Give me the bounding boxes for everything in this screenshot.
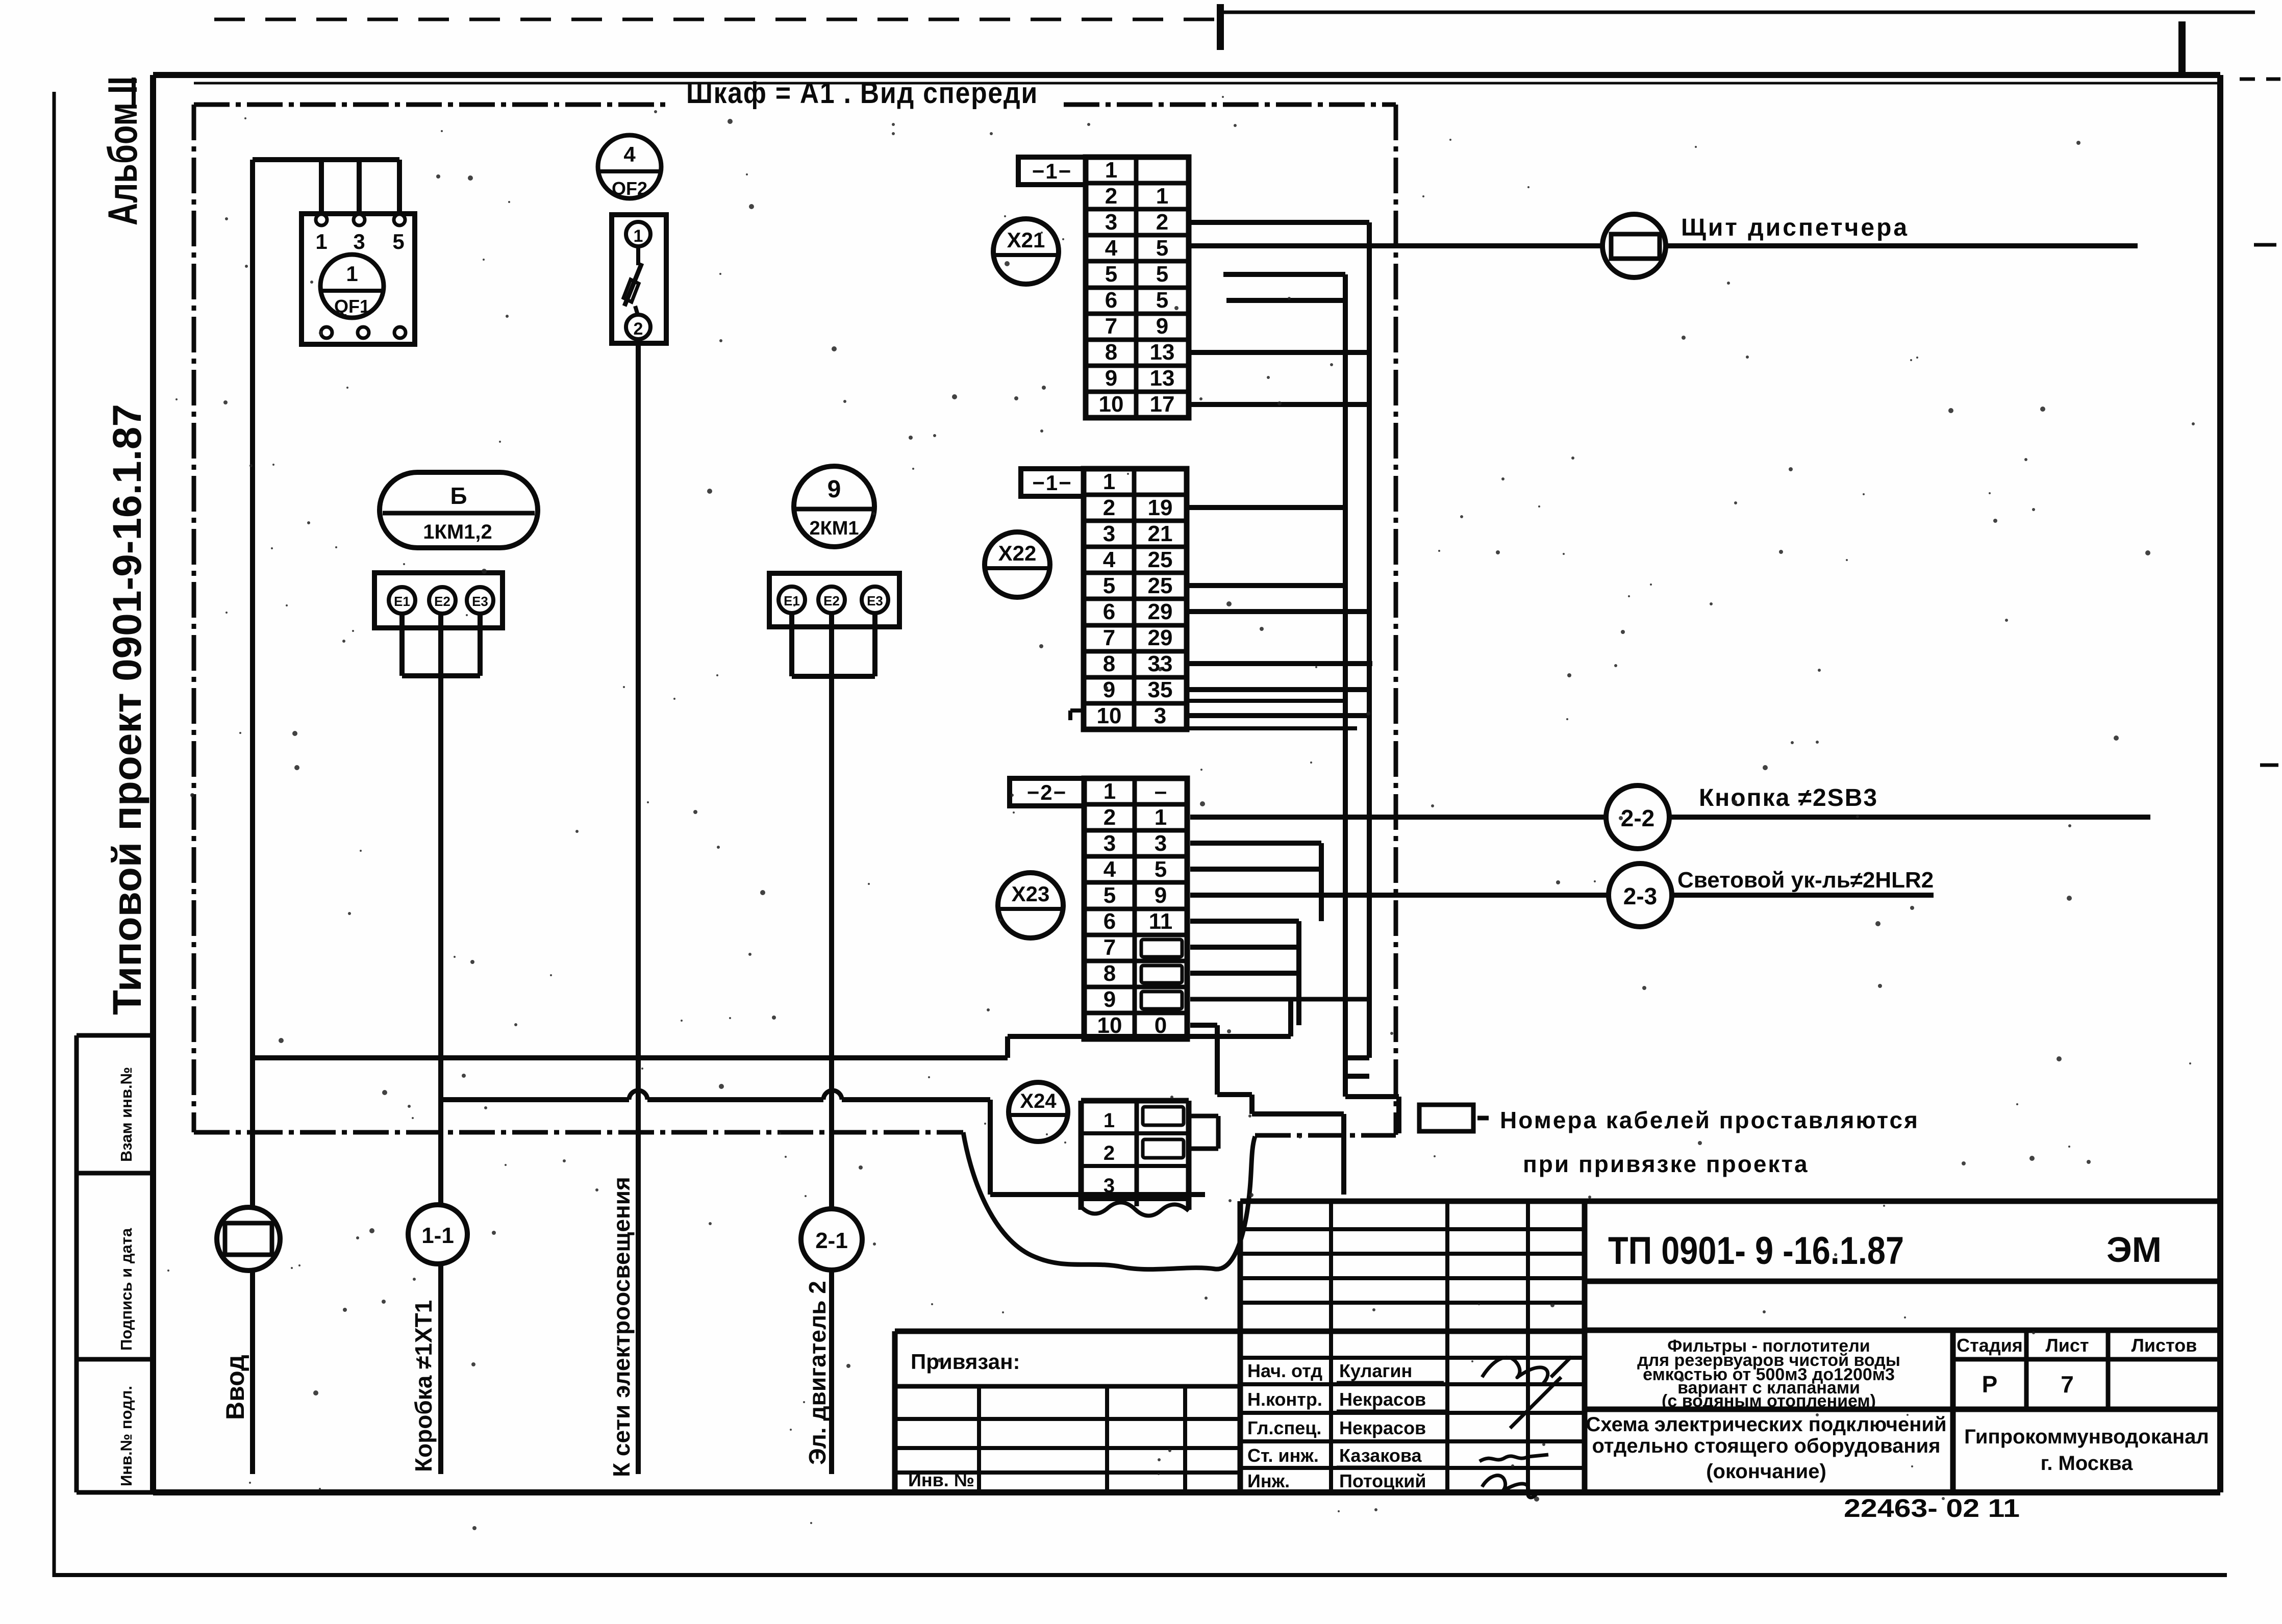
wire: X23 row3-4 jog [1319, 843, 1324, 921]
svg-text:2-1: 2-1 [815, 1228, 848, 1253]
wire: X21 row4 / dispatcher board line [1189, 243, 2138, 248]
svg-text:2-2: 2-2 [1621, 805, 1654, 831]
svg-text:25: 25 [1148, 573, 1173, 598]
svg-text:Е2: Е2 [823, 593, 840, 608]
svg-text:Е1: Е1 [394, 594, 410, 609]
wire: X23 row3 [1190, 841, 1321, 846]
wire: X21 row5 stub [1223, 272, 1345, 277]
wire: 1КМ1,2 terminals to Коробка 1ХТ1 [402, 614, 480, 1474]
svg-text:9: 9 [1104, 987, 1116, 1012]
svg-text:17: 17 [1150, 392, 1175, 417]
wire: feeder bus to QF1 and Ввод riser [253, 160, 399, 1474]
svg-text:Стадия: Стадия [1957, 1335, 2023, 1356]
svg-text:Е1: Е1 [784, 593, 800, 608]
svg-text:7: 7 [1105, 314, 1117, 339]
wire: X23 row2 / button 2SB3 line [1190, 815, 2150, 820]
connector circle X23 [998, 873, 1063, 938]
svg-text:QF1: QF1 [334, 296, 370, 317]
wire: X21 row3 to bus V2 [1189, 220, 1369, 225]
svg-text:9: 9 [1105, 366, 1117, 391]
svg-text:11: 11 [1149, 909, 1173, 934]
legend text [1500, 1107, 1919, 1177]
wire: X22 row9b [1187, 699, 1345, 703]
svg-text:5: 5 [1105, 262, 1117, 287]
wire: rung V1 to cabinet edge [1345, 1094, 1399, 1099]
svg-text:Типовой проект 0901-9-16.1.8: Типовой проект 0901-9-16.1.87 [104, 404, 149, 1015]
svg-text:X23: X23 [1012, 882, 1050, 906]
svg-text:ТП 0901- 9 -16.1.87: ТП 0901- 9 -16.1.87 [1608, 1229, 1904, 1273]
svg-text:13: 13 [1150, 366, 1175, 391]
svg-text:1: 1 [1104, 1109, 1115, 1132]
svg-text:35: 35 [1148, 677, 1173, 702]
svg-text:г. Москва: г. Москва [2041, 1452, 2133, 1475]
svg-text:–: – [1155, 779, 1167, 804]
svg-text:X22: X22 [998, 541, 1037, 565]
svg-text:Ст. инж.: Ст. инж. [1247, 1445, 1319, 1466]
svg-text:25: 25 [1148, 547, 1173, 572]
terminal strip X24 table [1081, 1101, 1189, 1216]
svg-text:Альбом II: Альбом II [100, 77, 146, 225]
svg-text:−1−: −1− [1032, 471, 1072, 495]
circuit breaker QF1 [302, 214, 415, 344]
wire: X23 row7 [1190, 945, 1299, 950]
wire: X23 row10 zigzag to X24 [1190, 1025, 1344, 1195]
svg-text:3: 3 [1154, 703, 1166, 728]
svg-text:4: 4 [1105, 236, 1118, 261]
svg-text:−2−: −2− [1027, 780, 1067, 804]
svg-text:1: 1 [1156, 184, 1168, 209]
svg-text:2: 2 [1156, 210, 1168, 235]
svg-text:1-1: 1-1 [421, 1223, 454, 1248]
svg-text:9: 9 [1156, 314, 1168, 339]
svg-text:Р: Р [1982, 1371, 1998, 1398]
cable circle: Ввод (feeder) [217, 1207, 280, 1271]
svg-text:−1−: −1− [1032, 159, 1072, 183]
wire: vertical bus V2 [1367, 222, 1372, 1058]
svg-text:Лист: Лист [2045, 1335, 2089, 1356]
svg-text:7: 7 [1104, 935, 1116, 960]
wire: X22 row9 [1187, 687, 1369, 692]
svg-text:5: 5 [1155, 857, 1167, 882]
svg-text:1: 1 [346, 262, 358, 286]
terminal strip X21 table [1086, 157, 1189, 418]
svg-text:1: 1 [315, 230, 327, 253]
svg-text:6: 6 [1103, 599, 1115, 624]
wire: X21 row10 [1189, 402, 1369, 407]
svg-text:5: 5 [1103, 573, 1115, 598]
svg-text:6: 6 [1104, 909, 1116, 934]
svg-text:8: 8 [1104, 961, 1116, 986]
svg-text:1: 1 [1155, 805, 1167, 830]
terminal strip X21 header &#8722;1&#8722; [1018, 157, 1086, 185]
svg-text:отдельно стоящего оборудования: отдельно стоящего оборудования [1592, 1435, 1940, 1457]
svg-text:Схема электрических подключени: Схема электрических подключений [1586, 1413, 1946, 1436]
svg-text:10: 10 [1099, 392, 1124, 417]
title block texts [908, 1229, 2209, 1523]
wire: vertical bus V1 [1343, 274, 1348, 1097]
svg-text:5: 5 [392, 230, 404, 253]
svg-text:33: 33 [1148, 651, 1173, 676]
svg-text:3: 3 [1105, 210, 1117, 235]
wire: X22 row10a [1187, 713, 1369, 718]
cable circle 2-3 [1609, 864, 1672, 927]
svg-text:3: 3 [353, 230, 365, 253]
terminal strip X22 table [1084, 469, 1187, 729]
svg-text:4: 4 [1103, 547, 1116, 572]
svg-text:1: 1 [1105, 158, 1117, 183]
wire: 2КМ1 terminals to motor 2 [792, 613, 875, 1474]
wire: X22 row2 [1187, 505, 1345, 510]
svg-text:Б: Б [450, 483, 467, 509]
legend: cable number symbol [1419, 1105, 1489, 1131]
svg-text:5: 5 [1156, 236, 1168, 261]
svg-text:ЭМ: ЭМ [2107, 1230, 2162, 1270]
svg-text:(с водяным отоплением): (с водяным отоплением) [1662, 1391, 1876, 1411]
svg-text:Щит диспетчера: Щит диспетчера [1681, 214, 1909, 241]
switch QF2 position circle 4 [598, 135, 661, 199]
svg-text:13: 13 [1150, 340, 1175, 365]
svg-text:Потоцкий: Потоцкий [1339, 1470, 1426, 1491]
svg-text:Некрасов: Некрасов [1339, 1417, 1426, 1438]
svg-text:Е2: Е2 [434, 594, 450, 609]
svg-text:5: 5 [1156, 262, 1168, 287]
svg-text:4: 4 [1104, 857, 1116, 882]
svg-text:Коробка ≠1ХТ1: Коробка ≠1ХТ1 [410, 1300, 437, 1472]
wire: X23 row5 / light indicator 2HLR2 line [1190, 893, 1934, 898]
svg-text:Инв. №: Инв. № [908, 1469, 974, 1490]
title block [895, 1201, 2220, 1492]
cabinet =A1 outline (chain line) [194, 105, 1396, 1270]
svg-text:Н.контр.: Н.контр. [1247, 1389, 1322, 1410]
contactor 1КМ1,2 position Б [380, 472, 538, 548]
svg-text:4: 4 [623, 142, 636, 166]
wire: X22 row10b [1187, 726, 1357, 730]
terminal box of 2КМ1 (Е1 Е2 Е3) [769, 573, 899, 627]
svg-text:21: 21 [1148, 521, 1173, 546]
svg-text:19: 19 [1148, 495, 1173, 520]
svg-text:Шкаф = А1 . Вид спереди: Шкаф = А1 . Вид спереди [686, 77, 1038, 110]
svg-text:8: 8 [1103, 651, 1115, 676]
svg-text:Кнопка ≠2SB3: Кнопка ≠2SB3 [1699, 784, 1878, 811]
svg-text:при привязке проекта: при привязке проекта [1523, 1151, 1809, 1177]
connector circle X22 [985, 532, 1050, 597]
cable circle 1-1 [408, 1205, 467, 1264]
svg-text:3: 3 [1155, 831, 1167, 856]
svg-text:Гипрокоммунводоканал: Гипрокоммунводоканал [1964, 1426, 2209, 1448]
svg-text:Эл. двигатель 2: Эл. двигатель 2 [804, 1281, 831, 1465]
switch QF2 contact box [612, 215, 666, 343]
wire: X21 row8 [1189, 350, 1369, 355]
svg-text:Некрасов: Некрасов [1339, 1389, 1426, 1410]
svg-text:7: 7 [2061, 1371, 2074, 1398]
svg-text:5: 5 [1104, 883, 1116, 908]
svg-text:22463- 02 11: 22463- 02 11 [1844, 1494, 2020, 1523]
svg-text:9: 9 [827, 476, 841, 503]
svg-text:Взам инв.№: Взам инв.№ [117, 1067, 135, 1162]
svg-text:Казакова: Казакова [1339, 1445, 1422, 1466]
svg-text:Е3: Е3 [472, 594, 488, 609]
svg-text:К сети электроосвещения: К сети электроосвещения [608, 1177, 635, 1477]
svg-text:10: 10 [1097, 703, 1122, 728]
svg-text:7: 7 [1103, 625, 1115, 650]
svg-text:9: 9 [1155, 883, 1167, 908]
signatures [1479, 1357, 1571, 1498]
svg-text:2: 2 [1104, 805, 1116, 830]
svg-text:2: 2 [1103, 495, 1115, 520]
terminal strip X22 header &#8722;1&#8722; [1021, 469, 1084, 496]
connector circle X24 [1009, 1082, 1068, 1141]
connector circle X21 [993, 219, 1059, 284]
svg-text:QF2: QF2 [612, 178, 647, 199]
terminal strip X23 header &#8722;2&#8722; [1010, 778, 1084, 806]
contactor 2КМ1 position 9 [794, 466, 874, 547]
svg-text:9: 9 [1103, 677, 1115, 702]
svg-text:3: 3 [1103, 521, 1115, 546]
terminal box of 1КМ1,2 (Е1 Е2 Е3) [374, 573, 503, 628]
wire: X22 row8 [1187, 661, 1372, 666]
svg-text:Е3: Е3 [867, 593, 883, 608]
svg-text:1: 1 [1103, 469, 1115, 494]
wire: X22 row5 [1187, 583, 1345, 588]
wire: X24 cable loops [1189, 1116, 1218, 1149]
svg-text:1: 1 [634, 226, 643, 246]
svg-text:Подпись и дата: Подпись и дата [117, 1228, 135, 1351]
svg-text:29: 29 [1148, 625, 1173, 650]
wire: X21 row6 stub [1226, 298, 1345, 303]
svg-text:Нач. отд: Нач. отд [1247, 1360, 1322, 1381]
wire: bottom bus A from Ввод riser [253, 999, 1291, 1058]
svg-text:Кулагин: Кулагин [1339, 1360, 1412, 1381]
svg-text:2: 2 [634, 319, 643, 339]
svg-text:Номера кабелей проставляют: Номера кабелей проставляются [1500, 1107, 1919, 1133]
cable circle 2-2 [1606, 785, 1669, 849]
wire: QF2 to lighting network [636, 343, 641, 1474]
svg-text:Световой ук-ль≠2HLR2: Световой ук-ль≠2HLR2 [1677, 868, 1934, 893]
wire: X23 row4 [1190, 867, 1321, 872]
svg-text:5: 5 [1156, 288, 1168, 313]
wire: X23 row6 [1190, 919, 1299, 924]
svg-text:Листов: Листов [2131, 1335, 2197, 1356]
wire: X23 staircase vertical [1296, 921, 1301, 1025]
svg-text:6: 6 [1105, 288, 1117, 313]
svg-text:1КМ1,2: 1КМ1,2 [423, 521, 492, 543]
terminal strip X23 table [1084, 778, 1187, 1039]
svg-text:Гл.спец.: Гл.спец. [1247, 1417, 1321, 1438]
wire: X23 row8 [1190, 971, 1299, 976]
svg-text:8: 8 [1105, 340, 1117, 365]
svg-text:29: 29 [1148, 599, 1173, 624]
svg-text:1: 1 [1104, 779, 1116, 804]
wire: X22 row6 [1187, 609, 1369, 614]
svg-text:X24: X24 [1020, 1090, 1057, 1112]
svg-text:Инв.№ подл.: Инв.№ подл. [117, 1386, 135, 1486]
svg-text:Ввод: Ввод [221, 1355, 249, 1420]
wire: X23 row9 [1190, 997, 1369, 1002]
cable circle 2-1 [801, 1209, 862, 1270]
svg-text:2: 2 [1104, 1142, 1115, 1164]
cable circle: dispatcher board (Щит диспетчера) [1602, 214, 1666, 277]
svg-text:3: 3 [1104, 831, 1116, 856]
wire: bus rungs at bottom [1345, 1055, 1369, 1060]
svg-text:2КМ1: 2КМ1 [809, 518, 859, 539]
svg-text:Инж.: Инж. [1247, 1470, 1290, 1491]
wire: bottom bus B with hops [440, 1090, 1205, 1195]
svg-text:2-3: 2-3 [1623, 883, 1657, 909]
svg-text:X21: X21 [1007, 228, 1045, 252]
svg-text:2: 2 [1105, 184, 1117, 209]
svg-text:(окончание): (окончание) [1706, 1460, 1826, 1483]
svg-text:Привязан:: Привязан: [911, 1350, 1020, 1374]
